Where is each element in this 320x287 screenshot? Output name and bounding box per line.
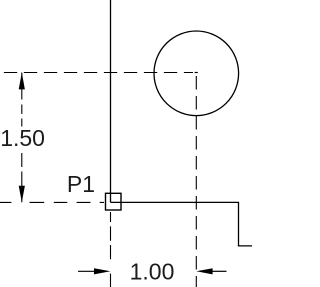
node: circle center vertical dashed centerline x=196.3 — [195, 76, 197, 287]
node P1 vertical dashed centerline x=110.5 below square — [110, 212, 112, 287]
dimension 1.50 up arrowhead — [19, 73, 25, 90]
node: circle center mark dot — [195, 72, 198, 74]
svg-text:1.00: 1.00 — [130, 259, 175, 285]
dimension 1.00 right shaft — [211, 270, 227, 272]
dimension 1.00 left shaft — [78, 270, 96, 272]
node P1 square marker — [106, 193, 122, 210]
dimension 1.50 vertical dim line (dashed) lower segment — [21, 153, 23, 202]
node: circle center horizontal dashed centerline y=72.5 — [0, 72, 193, 74]
node P1 horizontal dashed centerline y=202 — [0, 201, 104, 203]
wire: solid stepped object line right of P1 — [111, 202, 253, 246]
svg-text:1.50: 1.50 — [0, 125, 45, 151]
dimension 1.50 down arrowhead — [19, 186, 25, 202]
svg-text:P1: P1 — [67, 171, 95, 197]
circle object top right — [154, 31, 239, 116]
dimension 1.00 left arrowhead (points right at x=110.5) — [94, 268, 110, 274]
wire: vertical solid object line through P1 — [110, 0, 112, 202]
dimension 1.50 vertical dim line (dashed) upper segment — [21, 73, 23, 127]
dimension 1.00 right arrowhead (points left at x=196.3) — [196, 268, 212, 274]
